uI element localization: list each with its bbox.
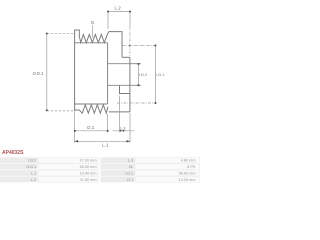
groove label G with leader [91,20,95,38]
svg-text:11.50 mm: 11.50 mm [80,178,97,182]
svg-text:65.60 mm: 65.60 mm [80,165,97,169]
dimension I.D.1 [117,45,164,104]
svg-text:I.D.1: I.D.1 [156,73,164,77]
svg-text:L.3: L.3 [120,126,125,130]
svg-text:L.2: L.2 [114,5,121,10]
junction dot axis crossing [129,45,131,47]
svg-text:14.20 mm: 14.20 mm [179,178,196,182]
svg-text:D.1: D.1 [127,178,133,182]
svg-text:L.1: L.1 [31,172,36,176]
rim groove root lines and rim inner edge [75,43,108,104]
hub nose end face and centre bore wall [109,57,130,112]
svg-text:AP4032S: AP4032S [2,150,24,156]
svg-text:6 PK: 6 PK [187,165,196,169]
svg-text:I.D.2: I.D.2 [139,73,147,77]
hub web / bore lines (also I.D.2 extension lines) [108,64,141,86]
dimension L.3 [113,96,135,133]
svg-text:L.1: L.1 [102,143,109,148]
dimension D.1 [74,112,109,143]
svg-text:17.00 mm: 17.00 mm [80,159,97,163]
data table right column [101,157,200,182]
svg-text:O.D.1: O.D.1 [26,165,36,169]
dimension L.2 [107,5,131,29]
svg-text:L.2: L.2 [31,178,36,182]
svg-text:O.D.1: O.D.1 [33,71,45,76]
dimension O.D.1 [33,33,75,111]
svg-text:56.00 mm: 56.00 mm [179,172,196,176]
svg-text:D.1: D.1 [87,125,95,130]
pulley rim grooves (bottom) [75,105,108,113]
dimension L.1 [75,113,130,148]
junction dot top-left of rim [74,33,75,34]
svg-text:I.D.2: I.D.2 [28,159,36,163]
svg-text:L.3: L.3 [128,159,133,163]
axis centreline [129,26,131,57]
svg-text:G: G [91,20,95,25]
svg-text:10.40 mm: 10.40 mm [80,172,97,176]
svg-text:I.D.1: I.D.1 [125,172,133,176]
svg-text:4.80 mm: 4.80 mm [181,159,196,163]
svg-text:N.: N. [129,165,133,169]
data table left column [0,157,98,182]
dimension I.D.2 [138,63,148,86]
pulley rim outer profile with poly-V grooves (top) [75,30,122,110]
junction dot bottom-left of rim [74,110,75,111]
